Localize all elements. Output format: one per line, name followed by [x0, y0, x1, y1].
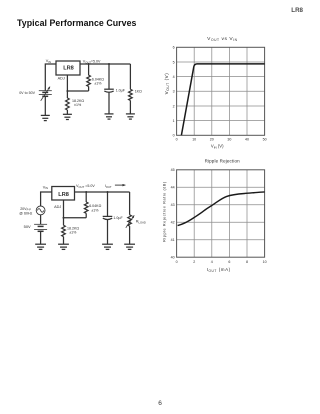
- graph 1 frame: [177, 47, 265, 135]
- wire cap to ground circuit 1: [108, 93, 110, 114]
- wire R4 bottom circuit 2: [85, 213, 87, 218]
- graph 2 gridlines: [177, 170, 265, 257]
- wire R5 circuit 2: [63, 218, 65, 244]
- svg-text:1.0µF: 1.0µF: [113, 216, 123, 220]
- svg-text:0: 0: [176, 260, 178, 264]
- svg-text:ADJ: ADJ: [54, 205, 61, 209]
- svg-text:1KΩ: 1KΩ: [135, 90, 142, 94]
- wire ADJ pin circuit 1: [67, 75, 88, 91]
- wire VOUT to R4 circuit 2: [85, 192, 87, 202]
- svg-text:@ 60Hz: @ 60Hz: [19, 211, 32, 215]
- junction dot ADJ circuit 2: [63, 217, 65, 219]
- svg-text:2: 2: [173, 104, 175, 108]
- wire input circuit 2: [41, 192, 52, 206]
- graph 1 x tick labels: [176, 138, 267, 142]
- junction dot circuit 2 at 6.04k: [85, 191, 87, 193]
- resistor R1 6.04K circuit 1: [87, 75, 91, 86]
- svg-text:VIN: VIN: [43, 185, 48, 190]
- capacitor C2 1.0uF circuit 2: [103, 216, 113, 219]
- wire cap branch circuit 1: [108, 64, 110, 89]
- svg-text:5: 5: [173, 60, 175, 64]
- junction dot ADJ circuit 1: [66, 90, 68, 92]
- graph 1 y tick labels: [173, 46, 175, 138]
- svg-text:LR8: LR8: [58, 192, 69, 198]
- svg-text:±1%: ±1%: [94, 82, 102, 86]
- battery B2 50V circuit 2: [34, 224, 47, 231]
- graph 2 x tick labels: [176, 260, 267, 264]
- svg-text:6: 6: [228, 260, 230, 264]
- wire cap branch circuit 2: [107, 192, 109, 216]
- graph 2 y tick labels: [171, 168, 175, 259]
- wire VOUT to R1 circuit 1: [88, 64, 90, 75]
- graph 2 curve ripple rejection: [178, 192, 265, 226]
- current arrow IOUT: [115, 184, 126, 186]
- svg-text:LR8: LR8: [63, 66, 74, 72]
- svg-text:RLOAD: RLOAD: [136, 219, 146, 224]
- svg-text:VOUT vs VIN: VOUT vs VIN: [207, 36, 238, 42]
- op-amp U1 : LR8 regulator box circuit 1: [56, 61, 80, 75]
- svg-text:Ripple Rejection: Ripple Rejection: [205, 158, 241, 163]
- wire battery to ground circuit 1: [44, 96, 46, 115]
- wire R1 bottom circuit 1: [88, 86, 90, 91]
- ground input circuit 1: [41, 115, 50, 120]
- resistor R4 6.04K circuit 2: [84, 202, 88, 213]
- svg-text:IOUT: IOUT: [105, 184, 112, 189]
- junction dot circuit 2 at cap: [107, 191, 109, 193]
- junction dot circuit 1 at 6.04k: [88, 63, 90, 65]
- svg-text:0: 0: [176, 138, 178, 142]
- ground R3 circuit 1: [126, 114, 135, 119]
- wire RLOAD to ground circuit 2: [129, 226, 131, 244]
- svg-text:±1%: ±1%: [69, 231, 77, 235]
- wire output circuit 1: [80, 63, 130, 65]
- svg-text:2: 2: [193, 260, 195, 264]
- svg-text:10: 10: [192, 138, 196, 142]
- ground RLOAD circuit 2: [124, 244, 135, 249]
- wire AC to battery circuit 2: [40, 215, 42, 225]
- svg-text:50: 50: [263, 138, 267, 142]
- page title: [17, 18, 136, 28]
- svg-text:8: 8: [246, 260, 248, 264]
- svg-text:50V: 50V: [24, 224, 31, 229]
- capacitor C1 1.0uF circuit 1: [104, 89, 114, 92]
- svg-text:4: 4: [211, 260, 213, 264]
- wire R3 to ground circuit 1: [129, 101, 131, 114]
- svg-text:1: 1: [173, 119, 175, 123]
- op-amp U2 : LR8 regulator box circuit 2: [52, 187, 75, 201]
- wire load branch circuit 2: [129, 192, 131, 215]
- svg-text:6: 6: [173, 46, 175, 50]
- wire ADJ pin circuit 2: [64, 200, 87, 218]
- svg-text:0: 0: [173, 134, 175, 138]
- svg-text:42: 42: [171, 221, 175, 225]
- graph 1 gridlines: [177, 47, 265, 135]
- header doc number LR8: [291, 7, 303, 14]
- wire output circuit 2: [75, 191, 130, 193]
- svg-text:VOUT (V): VOUT (V): [164, 73, 170, 95]
- ground cap circuit 2: [102, 244, 113, 249]
- ground R2 circuit 1: [63, 114, 72, 119]
- svg-text:±1%: ±1%: [91, 208, 99, 212]
- ground input circuit 2: [35, 244, 46, 249]
- svg-text:3: 3: [173, 90, 175, 94]
- svg-text:0V to 50V: 0V to 50V: [19, 91, 35, 95]
- wire cap to ground circuit 2: [107, 220, 109, 244]
- page number 6: [158, 400, 162, 407]
- svg-text:41: 41: [171, 238, 175, 242]
- svg-text:43: 43: [171, 203, 175, 207]
- ground cap circuit 1: [105, 114, 114, 119]
- junction dot circuit 1 at cap: [108, 63, 110, 65]
- svg-text:1.0µF: 1.0µF: [116, 88, 126, 92]
- svg-text:IOUT (mA): IOUT (mA): [207, 267, 231, 273]
- graph 2 frame: [177, 170, 265, 257]
- resistor R3 1K circuit 1: [129, 89, 133, 100]
- svg-text:44: 44: [171, 186, 175, 190]
- svg-text:ADJ: ADJ: [58, 76, 65, 80]
- svg-text:45: 45: [171, 168, 175, 172]
- resistor R6 RLOAD variable circuit 2: [126, 215, 134, 228]
- ground R5 circuit 2: [58, 244, 69, 249]
- wire battery to ground circuit 2: [40, 231, 42, 244]
- svg-text:6.04KΩ: 6.04KΩ: [89, 204, 101, 208]
- svg-text:10: 10: [263, 260, 267, 264]
- svg-text:VIN (V): VIN (V): [211, 144, 224, 150]
- svg-text:40: 40: [245, 138, 249, 142]
- graph 1 curve VOUT vs VIN: [181, 64, 264, 135]
- svg-text:40: 40: [171, 256, 175, 260]
- svg-text:30: 30: [227, 138, 231, 142]
- svg-text:Ripple Rejection Ratio (dB): Ripple Rejection Ratio (dB): [163, 181, 167, 242]
- AC source V1 20Vp-p 60Hz: [36, 206, 45, 215]
- svg-text:VIN: VIN: [46, 59, 51, 64]
- svg-text:±1%: ±1%: [74, 103, 82, 107]
- wire input top circuit 1: [45, 64, 56, 90]
- battery B1 variable source 0V to 50V: [39, 87, 52, 101]
- svg-text:VOUT =5.0V: VOUT =5.0V: [76, 184, 95, 189]
- svg-text:20: 20: [210, 138, 214, 142]
- resistor R5 18.2K circuit 2: [62, 225, 66, 236]
- svg-text:4: 4: [173, 75, 175, 79]
- resistor R2 18.2K circuit 1: [66, 98, 70, 110]
- wire load branch circuit 1: [129, 64, 131, 89]
- wire R2 circuit 1: [66, 91, 68, 114]
